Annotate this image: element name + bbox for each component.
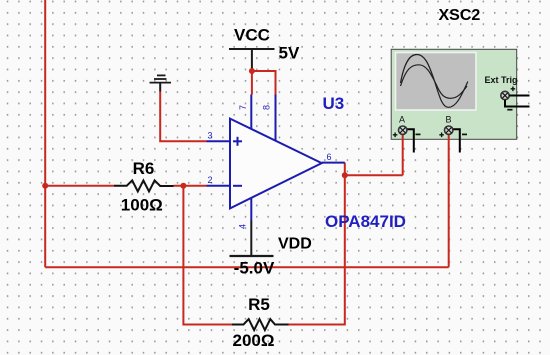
wire: R6 left lead wire: [45, 185, 114, 187]
op-amp minus input mark: [233, 185, 242, 187]
svg-text:8: 8: [262, 105, 272, 110]
svg-text:Ext Trig: Ext Trig: [485, 75, 518, 85]
svg-text:6: 6: [326, 152, 331, 162]
svg-text:B: B: [445, 115, 451, 125]
pin 2 stub: [207, 185, 231, 187]
wire: R5 right up to output node: [289, 175, 345, 324]
svg-text:U3: U3: [323, 94, 345, 113]
op-amp plus input mark: [233, 137, 242, 146]
op-amp U3 pins: [207, 95, 345, 221]
junction node at output: [342, 172, 348, 178]
svg-text:R6: R6: [133, 159, 155, 178]
wire: R6 right to pin2: [174, 185, 207, 187]
wire: scope B input drop: [448, 135, 450, 268]
power VDD symbol: [230, 221, 274, 257]
wire: output node to scope A: [345, 174, 403, 176]
svg-text:XSC2: XSC2: [439, 7, 481, 24]
scope terminal A: [393, 115, 421, 153]
pin 8 stub: [275, 95, 277, 142]
ground: [150, 75, 172, 91]
svg-text:2: 2: [207, 175, 212, 185]
pin 6 stub: [322, 162, 345, 164]
pin 3 stub: [207, 140, 231, 142]
wire: VCC node to pin8: [252, 71, 276, 95]
wire: VCC node to pin7: [251, 71, 253, 95]
svg-text:5V: 5V: [279, 44, 300, 63]
svg-text:3: 3: [207, 131, 212, 141]
resistor R6: [114, 180, 174, 191]
svg-text:100Ω: 100Ω: [121, 196, 163, 215]
junction node at left wire / R6: [42, 183, 48, 189]
pin 7 stub: [250, 95, 252, 130]
junction node at R6 right / feedback: [180, 183, 186, 189]
wire: bottom horizontal to scope B: [45, 266, 449, 268]
pin 4 stub: [250, 198, 252, 221]
svg-text:OPA847ID: OPA847ID: [325, 212, 406, 231]
wire: feedback down from inverting node to R5: [183, 186, 232, 325]
resistor R5: [232, 319, 289, 330]
op-amp U3 triangle: [230, 119, 322, 209]
scope waveform trace 1: [401, 55, 468, 108]
svg-text:R5: R5: [248, 295, 270, 314]
svg-text:A: A: [399, 115, 405, 125]
svg-text:-5.0V: -5.0V: [234, 259, 275, 278]
oscilloscope screen: [396, 53, 477, 111]
svg-text:4: 4: [238, 224, 248, 229]
svg-text:VDD: VDD: [278, 236, 312, 253]
svg-text:200Ω: 200Ω: [233, 331, 275, 350]
svg-text:7: 7: [238, 105, 248, 110]
ext trig terminal: [501, 87, 530, 110]
oscilloscope XSC2 body: [391, 49, 517, 139]
power VCC symbol: [229, 49, 275, 71]
wire: left vertical net (B net) x=45: [44, 0, 46, 267]
svg-text:VCC: VCC: [234, 26, 270, 45]
scope terminal B: [439, 115, 467, 153]
junction node at VCC: [249, 68, 255, 74]
wire: output pin to node: [344, 163, 346, 176]
wire: ground to pin3: [160, 92, 206, 142]
scope waveform trace 2: [401, 65, 468, 99]
wire: scope A input drop: [402, 135, 404, 176]
